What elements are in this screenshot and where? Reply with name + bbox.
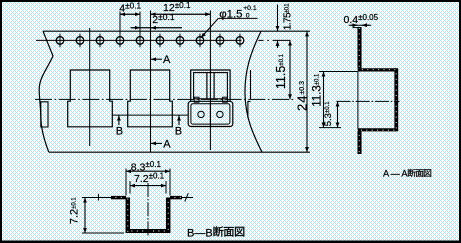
BB section: right wall bbox=[166, 198, 171, 234]
sprocket hole 8 bbox=[196, 37, 204, 45]
BB section: left flange bbox=[111, 196, 126, 199]
component flange outer bbox=[188, 101, 233, 126]
AA dim 11.3 line bbox=[323, 72, 325, 128]
sprocket hole 4 bbox=[116, 37, 124, 45]
pocket centerline horizontal bbox=[35, 98, 294, 100]
right break line bbox=[245, 31, 262, 152]
dim 12 line bbox=[151, 13, 211, 15]
AA section: tape top tick bbox=[353, 27, 359, 29]
phi leader underline bbox=[218, 17, 257, 19]
phi leader diagonal bbox=[201, 18, 218, 37]
component center seam bbox=[209, 102, 211, 125]
component hole left bbox=[198, 111, 204, 117]
sprocket hole 9 bbox=[216, 37, 224, 45]
section B arrow left bbox=[118, 115, 120, 125]
pocket 3 centerline vertical bbox=[209, 11, 211, 151]
component cavity divider right bbox=[213, 73, 215, 99]
AA section: pocket opening line bbox=[357, 72, 359, 129]
AA section: pocket right wall bbox=[394, 68, 398, 131]
AA section: tape wall upper bbox=[357, 27, 361, 68]
sprocket hole 7 bbox=[176, 37, 184, 45]
sprocket hole centerline bbox=[36, 39, 242, 41]
BB section: white stipple dots bbox=[112, 197, 182, 232]
sprocket hole 5 bbox=[136, 37, 144, 45]
svg-text:B: B bbox=[175, 125, 182, 137]
component housing inner rect bbox=[194, 73, 228, 99]
component flange inner bbox=[191, 104, 230, 124]
BB dim 7.2 vertical ext top bbox=[82, 197, 99, 199]
svg-text:B—B: B—B bbox=[187, 227, 213, 239]
AA dim 0.4 line bbox=[349, 24, 372, 26]
pocket 4 fragment upper-left edge bbox=[250, 70, 252, 99]
sprocket hole 10 bbox=[236, 37, 244, 45]
svg-text:φ1.5: φ1.5 bbox=[219, 9, 242, 21]
dim 4 line bbox=[120, 13, 140, 15]
dim 4 extension line right bbox=[139, 12, 141, 48]
BB section: bottom wall bbox=[126, 229, 170, 233]
left break line bbox=[39, 31, 53, 152]
section A arrow top bbox=[151, 58, 162, 60]
BB section: right flange bbox=[170, 196, 182, 199]
sprocket hole 2 bbox=[76, 37, 84, 45]
pocket 2 outline bbox=[128, 70, 173, 127]
dim 1.75 line upper bbox=[277, 5, 279, 32]
tape bottom edge bbox=[49, 151, 310, 153]
dim 11.5 line bbox=[289, 40, 291, 99]
BB dim 7.2 vertical line bbox=[84, 198, 86, 234]
BB section: centerline bbox=[147, 183, 149, 237]
dim 4 extension line left bbox=[119, 12, 121, 48]
BB dim 7.2 line bbox=[130, 185, 166, 187]
dim 1.75 tail lower bbox=[277, 41, 279, 48]
section line A-A (vertical) bbox=[150, 11, 152, 153]
AA section: pocket center line bbox=[337, 100, 400, 102]
svg-text:A: A bbox=[163, 139, 171, 151]
AA dim 0.4 arrow right bbox=[362, 24, 370, 26]
svg-text:A—A: A—A bbox=[383, 169, 409, 179]
BB dim 8.3 line bbox=[126, 170, 170, 172]
component hole right bbox=[217, 111, 223, 117]
BB dim 8.3 ext right bbox=[169, 169, 171, 196]
BB section: right break tick bbox=[185, 193, 189, 201]
section B arrow right bbox=[178, 115, 180, 125]
pocket 3 outline bbox=[191, 70, 230, 101]
sprocket hole 3 bbox=[96, 37, 104, 45]
BB dim 8.3 ext left bbox=[125, 169, 127, 196]
BB section: left tape line bbox=[99, 197, 113, 199]
component cavity divider left bbox=[206, 73, 208, 99]
pocket 1 outline bbox=[68, 70, 113, 127]
BB dim 7.2 ext left bbox=[129, 181, 131, 194]
sprocket hole 1 bbox=[56, 37, 64, 45]
AA dim 5.3 line bbox=[337, 101, 339, 127]
AA dim 11.3 ext bottom bbox=[319, 127, 341, 129]
pocket 4 fragment lower-left edge bbox=[248, 101, 251, 118]
BB dim 7.2 vertical ext bottom bbox=[82, 232, 124, 234]
AA section: tape wall lower bbox=[357, 131, 361, 154]
dim 2 arrow left bbox=[132, 27, 140, 29]
section line B-B (horizontal) bbox=[112, 114, 188, 116]
AA section: white stipple dots bbox=[359, 28, 397, 154]
svg-text:+0.1: +0.1 bbox=[243, 5, 257, 12]
AA dim 11.3 ext top bbox=[319, 71, 358, 73]
BB dim 7.2 ext right bbox=[165, 181, 167, 194]
dim 2 line bbox=[131, 27, 183, 29]
BB section: left wall bbox=[126, 198, 131, 234]
pocket 1 centerline vertical bbox=[89, 28, 91, 146]
dim 24 line bbox=[306, 31, 308, 152]
sprocket hole 6 bbox=[156, 37, 164, 45]
svg-text:0: 0 bbox=[246, 13, 250, 20]
tape top edge bbox=[43, 30, 310, 32]
component tab right bbox=[223, 97, 228, 102]
section A arrow bottom bbox=[151, 142, 162, 144]
svg-text:A: A bbox=[163, 54, 171, 66]
AA dim 0.4 arrow left bbox=[351, 24, 358, 26]
BB section: right tape line bbox=[182, 197, 193, 199]
AA section: pocket bottom wall bbox=[358, 128, 397, 131]
dim 2 arrow right bbox=[151, 27, 159, 29]
pocket fragment at left break bbox=[41, 102, 48, 127]
component tab left bbox=[194, 97, 199, 102]
AA section: pocket top wall bbox=[358, 68, 397, 71]
BB section: left break tick bbox=[97, 194, 99, 201]
svg-text:B: B bbox=[116, 125, 123, 137]
border frame bbox=[0, 0, 461, 2]
